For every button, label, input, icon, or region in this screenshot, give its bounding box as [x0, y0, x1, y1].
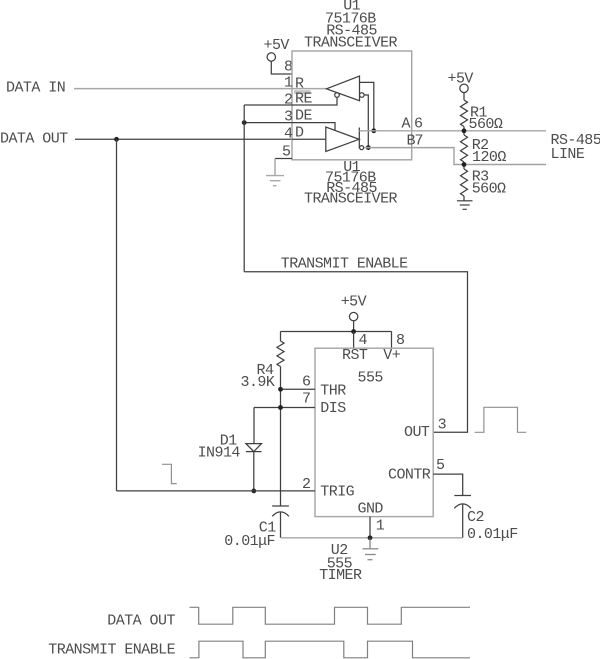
driver output bar — [358, 128, 360, 149]
svg-text:560Ω: 560Ω — [469, 116, 503, 133]
wire TRANSMIT ENABLE to OUT — [244, 272, 467, 433]
wire pin 8 stub — [391, 332, 393, 349]
wire DE pin 3 — [244, 122, 292, 124]
wire TRIG pin 2 — [117, 490, 316, 492]
wire CONTR pin 5 to C2 — [433, 474, 463, 495]
wire receiver B input — [364, 95, 368, 148]
svg-text:6: 6 — [302, 374, 311, 391]
wire DATA OUT down to TRIG — [116, 139, 118, 491]
wire A line to RS-485 — [359, 130, 546, 132]
resistor R2 — [461, 135, 468, 162]
power +5V (555) — [341, 294, 367, 321]
svg-text:TRANSCEIVER: TRANSCEIVER — [304, 35, 398, 52]
driver output bubble B — [360, 146, 364, 150]
wire +5V rail — [281, 331, 392, 333]
wire enable down to TRANSMIT ENABLE — [243, 105, 245, 272]
ground (R3) — [457, 201, 473, 210]
wire D pin 4 inside — [292, 138, 326, 140]
wire RE inside to bubble — [292, 97, 337, 105]
svg-text:C2: C2 — [467, 509, 484, 526]
svg-text:555: 555 — [358, 370, 384, 387]
svg-text:3.9K: 3.9K — [241, 374, 275, 391]
diode D1 — [246, 444, 262, 452]
power +5V (transceiver pin 8) — [264, 37, 290, 61]
wire pin 4 stub — [353, 332, 355, 349]
wire RE pin 2 — [244, 104, 292, 106]
resistor R4 — [277, 341, 284, 366]
wire GND to ground — [369, 538, 371, 549]
receiver triangle U1a — [327, 76, 360, 101]
svg-text:THR: THR — [320, 383, 346, 400]
junction GND rail — [368, 535, 373, 540]
wire DATA OUT to pin 4 D — [75, 138, 292, 140]
svg-text:2: 2 — [302, 476, 310, 493]
receiver input bubble (B) — [360, 93, 365, 98]
svg-text:4: 4 — [284, 126, 293, 143]
wire +5V to pin 8 — [271, 61, 292, 74]
wire pin 5 to ground — [274, 159, 276, 176]
wire C1 to ground rail — [280, 512, 282, 538]
ground (555 GND) — [363, 549, 379, 560]
resistor R3 — [461, 169, 468, 196]
wire DATA IN to pin 1 R — [74, 88, 327, 90]
svg-text:560Ω: 560Ω — [472, 181, 506, 198]
svg-text:LINE: LINE — [551, 146, 585, 163]
wire C2 to ground rail — [462, 504, 464, 538]
wire D1 to TRIG — [253, 452, 255, 491]
junction B internal — [366, 145, 371, 150]
junction DATA OUT — [114, 137, 119, 142]
svg-text:0.01μF: 0.01μF — [224, 533, 275, 550]
capacitor C2 — [454, 496, 471, 509]
junction TRIG/D1 — [251, 489, 256, 494]
wire B line to RS-485 — [364, 148, 546, 165]
wire DE inside to driver — [292, 123, 335, 131]
junction +5V rail — [351, 329, 356, 334]
junction DE/RE — [242, 120, 247, 125]
junction DIS — [278, 405, 283, 410]
svg-text:+5V: +5V — [448, 71, 474, 88]
wire pin 5 stub — [275, 158, 292, 160]
driver triangle U1b — [326, 127, 359, 152]
svg-text:DATA OUT: DATA OUT — [107, 613, 175, 630]
wire R1 to A — [463, 127, 465, 136]
svg-text:TRANSMIT ENABLE: TRANSMIT ENABLE — [48, 642, 175, 659]
svg-text:IN914: IN914 — [198, 445, 241, 462]
svg-text:V+: V+ — [383, 347, 400, 364]
wire R3 to ground — [463, 196, 465, 201]
svg-text:TRIG: TRIG — [320, 484, 354, 501]
IC body U1 75176B — [292, 51, 412, 160]
junction R2/B — [462, 162, 467, 167]
waveform glyph OUT pulse — [475, 407, 527, 432]
svg-text:RST: RST — [342, 347, 368, 364]
IC body U2 555 — [315, 348, 433, 516]
junction THR — [278, 387, 283, 392]
svg-text:CONTR: CONTR — [388, 467, 431, 484]
junction A internal — [371, 128, 376, 133]
receiver enable bubble — [335, 93, 340, 98]
wire R2 to B — [463, 162, 465, 169]
svg-text:1: 1 — [284, 75, 293, 92]
svg-text:+5V: +5V — [341, 294, 367, 311]
wire receiver A input — [360, 82, 374, 130]
svg-text:TRANSMIT ENABLE: TRANSMIT ENABLE — [281, 256, 408, 273]
svg-text:DATA IN: DATA IN — [6, 80, 65, 97]
wire rail down to R4 — [280, 332, 282, 342]
wire THR pin 6 — [281, 388, 316, 390]
waveform TRANSMIT ENABLE — [190, 641, 471, 658]
svg-text:5: 5 — [436, 457, 445, 474]
svg-text:DIS: DIS — [320, 400, 346, 417]
svg-text:DE: DE — [295, 108, 312, 125]
svg-text:GND: GND — [358, 501, 384, 518]
svg-text:OUT: OUT — [404, 424, 430, 441]
wire ground rail — [281, 537, 463, 539]
svg-text:0.01μF: 0.01μF — [467, 526, 518, 543]
ground (transceiver pin 5) — [266, 176, 284, 186]
svg-text:7: 7 — [302, 391, 310, 408]
resistor R1 — [461, 100, 468, 127]
wire DIS down to D1 — [253, 408, 255, 444]
svg-text:2: 2 — [284, 92, 292, 109]
wire +5V to rail — [353, 321, 355, 332]
svg-text:TRANSCEIVER: TRANSCEIVER — [304, 191, 398, 208]
svg-text:3: 3 — [438, 417, 447, 434]
wire DIS pin 7 — [254, 407, 315, 409]
gray artifact under R — [294, 90, 311, 94]
capacitor C1 — [272, 506, 289, 516]
wire GND pin 1 stub — [369, 517, 371, 538]
svg-text:TIMER: TIMER — [319, 567, 362, 584]
svg-text:1: 1 — [376, 518, 385, 535]
svg-text:A: A — [402, 116, 411, 133]
power +5V (R1) — [448, 71, 474, 93]
wire R4 to THR/DIS/C1 — [280, 367, 282, 507]
waveform DATA OUT — [190, 607, 471, 624]
svg-text:DATA OUT: DATA OUT — [0, 131, 68, 148]
svg-text:120Ω: 120Ω — [472, 149, 506, 166]
svg-text:6: 6 — [414, 116, 423, 133]
wire +5V to R1 — [463, 93, 465, 101]
waveform glyph trigger pulse — [162, 464, 177, 483]
junction R1/A — [462, 128, 467, 133]
svg-text:+5V: +5V — [264, 37, 290, 54]
